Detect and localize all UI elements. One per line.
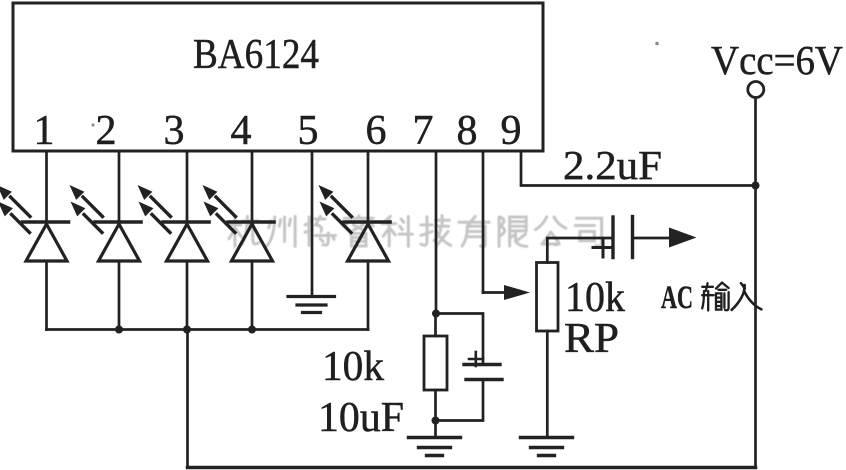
scan speck (655, 42, 659, 46)
wire pin5 lead (311, 151, 314, 296)
wire R1 bottom lead (434, 390, 437, 437)
C2 plus mark (469, 352, 483, 366)
wire R1 top lead (434, 314, 437, 337)
svg-text:5: 5 (298, 108, 319, 154)
svg-text:10k: 10k (322, 344, 384, 390)
wire pin8 lead (482, 151, 485, 293)
svg-text:10k: 10k (565, 275, 625, 321)
wiper arrowhead (504, 285, 530, 300)
wire LED anode bus (47, 328, 369, 331)
wire wiper line (483, 291, 512, 294)
C1 plus mark (593, 240, 613, 257)
LED D5 (319, 185, 391, 261)
node A pin7/R1/C2 (432, 310, 440, 318)
svg-text:BA6124: BA6124 (193, 32, 319, 78)
ground pin5 (288, 297, 335, 313)
node bus-D3 (183, 326, 191, 334)
wire C2 bottom to node B (436, 380, 484, 421)
watermark text (229, 216, 602, 247)
node pin9-Vcc junction (752, 182, 760, 190)
svg-text:RP: RP (564, 316, 619, 362)
wire pin lead to D2 (118, 151, 121, 330)
wire bottom rail (188, 466, 756, 470)
svg-text:4: 4 (231, 108, 252, 154)
wire RP top lead (547, 238, 613, 263)
svg-text:AC: AC (661, 280, 693, 316)
potentiometer RP body (537, 263, 559, 332)
wire pin lead to D1 (45, 151, 48, 330)
svg-text:2.2uF: 2.2uF (563, 142, 662, 188)
LED D2 (70, 185, 142, 261)
svg-text:Vcc=6V: Vcc=6V (711, 37, 843, 83)
LED D3 (138, 185, 210, 261)
svg-text:9: 9 (501, 108, 522, 154)
svg-text:2: 2 (96, 108, 117, 154)
svg-text:6: 6 (366, 108, 387, 154)
IC U1 BA6124 box (13, 3, 543, 151)
ground under R1 (409, 438, 461, 456)
wire pin lead to D5 (367, 151, 370, 330)
resistor R1 10k (424, 336, 447, 390)
wire C1 to arrow (633, 237, 673, 240)
ground under RP (521, 438, 573, 456)
wire pin9 lead to Vcc (521, 151, 756, 186)
svg-text:1: 1 (34, 108, 55, 154)
wire pin lead to D3 (186, 151, 189, 330)
wire pin lead to D4 (251, 151, 254, 330)
scan speck (91, 123, 94, 126)
wire pin7 lead (435, 151, 438, 314)
svg-text:8: 8 (457, 108, 478, 154)
capacitor C1 coupling (613, 217, 633, 258)
wire node A to C2 top (436, 314, 483, 365)
LED D4 (203, 185, 275, 261)
wire Vcc rail (754, 98, 757, 468)
capacitor C2 10uF (464, 365, 502, 380)
Vcc terminal (748, 82, 764, 98)
label 输入 (input) (702, 283, 761, 311)
svg-text:3: 3 (164, 108, 185, 154)
LED D1 (0, 185, 69, 261)
AC input arrowhead (669, 228, 697, 248)
node B R1/C2 bottom (432, 417, 440, 425)
svg-text:7: 7 (413, 108, 434, 154)
node bus-D2 (115, 326, 123, 334)
wire RP bottom lead (546, 331, 549, 437)
wire bus drop to bottom rail (186, 330, 189, 468)
svg-text:10uF: 10uF (318, 395, 404, 441)
node bus-D4 (248, 326, 256, 334)
